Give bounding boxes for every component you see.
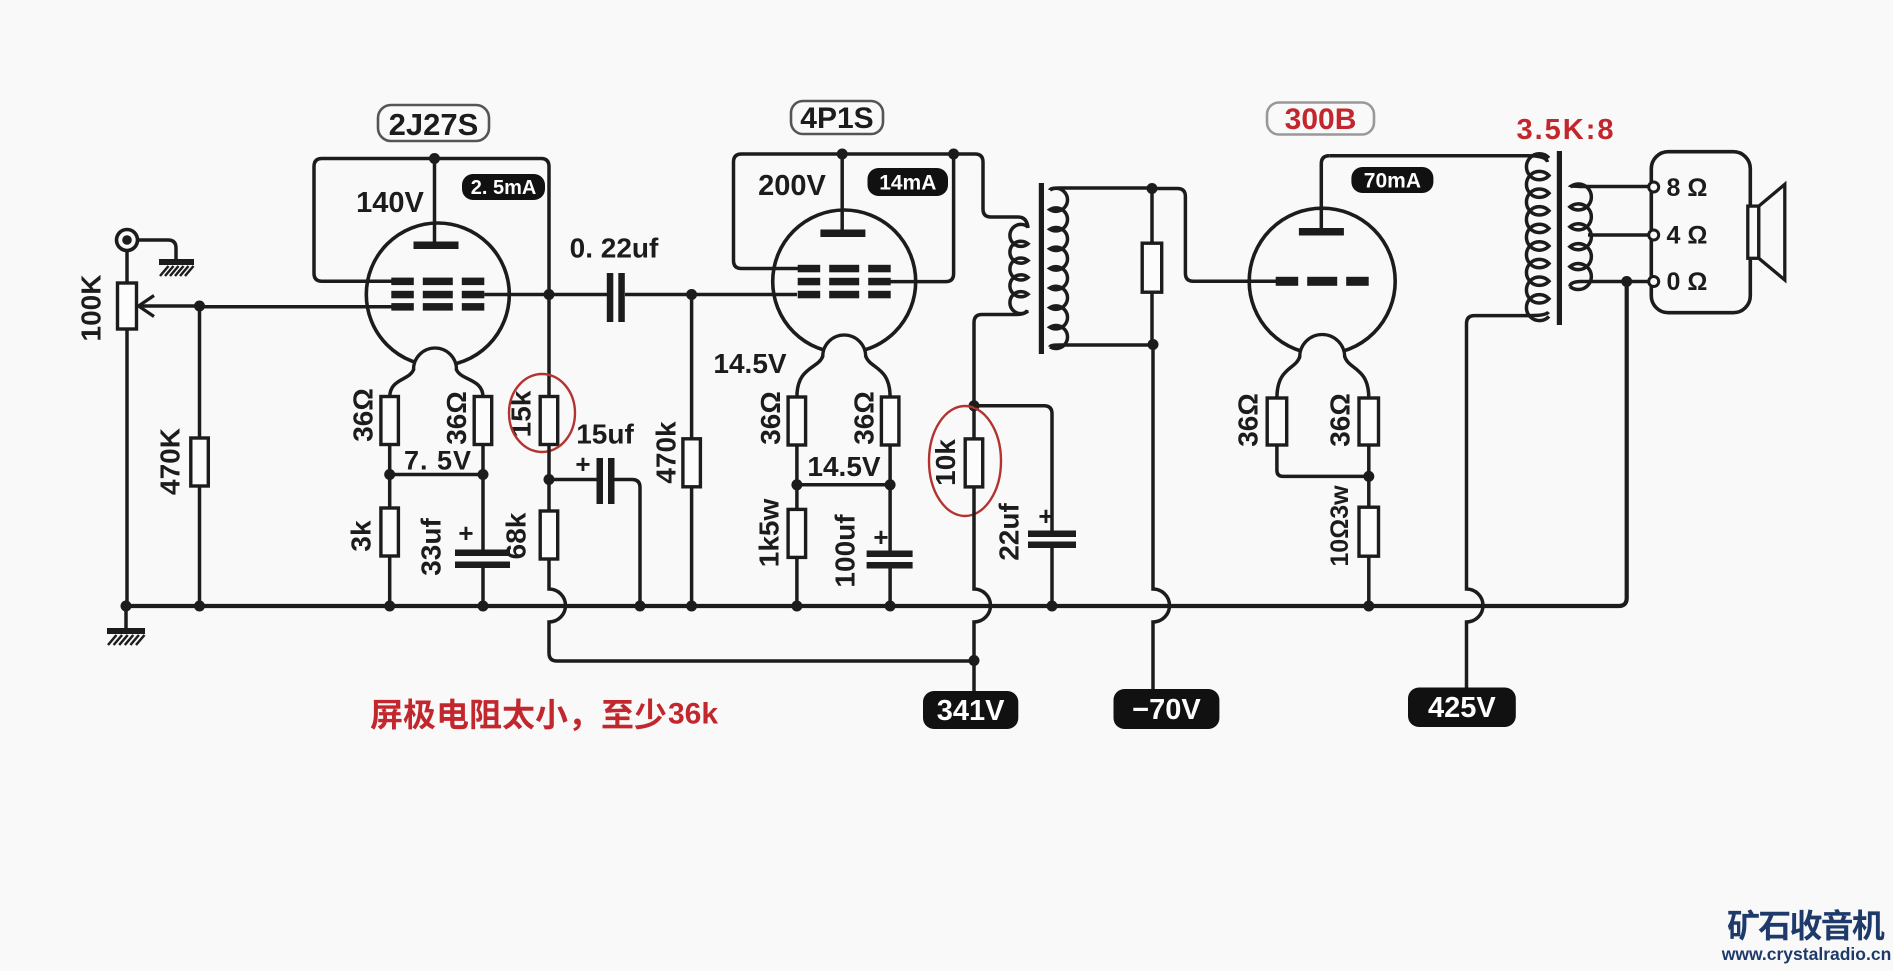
wire 15uf to ground rail xyxy=(615,480,641,607)
tube 2J27S plate xyxy=(414,159,459,250)
junction rail / 470k xyxy=(686,601,697,612)
wire rail end to main ground xyxy=(124,606,128,629)
net label 341V xyxy=(923,691,1018,729)
label + (33uf polarity) xyxy=(458,518,473,548)
svg-text:10k: 10k xyxy=(930,439,961,486)
output transformer core xyxy=(1557,151,1562,325)
resistor 36Ω (300B left filament) xyxy=(1267,398,1287,445)
svg-text:22uf: 22uf xyxy=(994,503,1025,561)
svg-text:100K: 100K xyxy=(76,275,107,342)
svg-text:100uf: 100uf xyxy=(830,514,861,588)
tube 4P1S envelope xyxy=(773,210,916,353)
svg-text:36k: 36k xyxy=(668,698,718,731)
wire secondary bottom to node xyxy=(1050,345,1153,347)
label 70mA xyxy=(1351,167,1433,193)
resistor 15k xyxy=(540,397,558,445)
wire 1k5w to ground rail xyxy=(795,557,799,606)
output transformer primary coil xyxy=(1526,154,1549,321)
label 4Ω xyxy=(1667,222,1708,250)
wire 10k hop over rail to 341V xyxy=(974,487,991,661)
label 8Ω xyxy=(1667,174,1708,202)
tube label 300B xyxy=(1267,103,1374,137)
tube 300B plate xyxy=(1299,156,1344,236)
grid resistor (across secondary) xyxy=(1142,189,1162,345)
wire 470k to ground rail xyxy=(690,487,694,606)
terminal 8Ω xyxy=(1649,182,1659,192)
wire wiper to 2J27S grid g1 xyxy=(200,305,393,309)
speaker xyxy=(1748,184,1785,280)
junction cathode / 100uf xyxy=(885,479,896,490)
svg-text:3.5K:8: 3.5K:8 xyxy=(1516,114,1615,146)
resistor 36Ω (4P1S left filament) xyxy=(788,397,806,445)
label 36Ω xyxy=(441,391,472,445)
wire 3k to ground rail xyxy=(388,556,392,606)
wire 68k hop over rail to B+ feed xyxy=(549,559,974,661)
wire 300B plate to OT primary top xyxy=(1329,156,1547,162)
svg-text:0. 22uf: 0. 22uf xyxy=(570,233,659,264)
svg-text:70mA: 70mA xyxy=(1364,170,1421,193)
wire secondary top node to 300B grid xyxy=(1152,189,1278,282)
svg-text:7. 5V: 7. 5V xyxy=(404,446,472,476)
svg-text:36Ω: 36Ω xyxy=(849,391,880,445)
svg-text:300B: 300B xyxy=(1285,103,1357,136)
label 0Ω xyxy=(1667,268,1708,296)
ground rail (0V bus) xyxy=(126,282,1627,607)
junction 15k / 68k / 15uf xyxy=(544,474,555,485)
label 14.5V (cathode) xyxy=(807,451,880,482)
svg-text:36Ω: 36Ω xyxy=(348,388,379,442)
wire plate-node loop left to g3 (4P1S) xyxy=(734,154,954,269)
capacitor 33uf xyxy=(455,550,510,569)
svg-text:+: + xyxy=(575,449,590,479)
label + (15uf polarity) xyxy=(575,449,590,479)
label 14.5V (grid) xyxy=(713,348,786,379)
potentiometer 100K body xyxy=(118,283,137,329)
wire cathode to 33uf xyxy=(481,475,485,551)
junction rail / 10ohm3w xyxy=(1363,601,1374,612)
node 4P1S plate junction xyxy=(837,149,848,160)
tube 300B envelope xyxy=(1249,208,1395,354)
label 2.5mA xyxy=(462,174,545,200)
wire junction to 470k xyxy=(690,295,694,440)
svg-text:36Ω: 36Ω xyxy=(1325,393,1356,447)
label 15k xyxy=(506,390,537,437)
label 36Ω xyxy=(849,391,880,445)
wire junction to 470K xyxy=(198,306,202,438)
svg-text:425V: 425V xyxy=(1428,692,1496,724)
watermark logo 矿石收音机 xyxy=(1728,909,1885,941)
wire secondary to 8Ω tap xyxy=(1570,184,1649,188)
junction secondary bottom / bias xyxy=(1148,339,1159,350)
label 14mA xyxy=(868,168,949,196)
annotation: plate resistor too small, at least 36k xyxy=(371,698,719,732)
label 10Ω3w xyxy=(1326,485,1354,567)
label 0.22uf xyxy=(570,233,659,264)
resistor 470K xyxy=(191,438,209,486)
junction rail / 33uf xyxy=(478,601,489,612)
label 36Ω xyxy=(755,391,786,445)
svg-text:68k: 68k xyxy=(501,512,532,559)
node 2J27S plate junction xyxy=(429,153,440,164)
svg-text:2J27S: 2J27S xyxy=(389,107,479,142)
wire filament resistors to cathode node (4P1S) xyxy=(797,445,890,485)
wire plate node to interstage primary top xyxy=(954,154,1028,228)
junction B+ feed / 341V xyxy=(969,655,980,666)
node plate / transformer primary xyxy=(948,149,959,160)
svg-text:200V: 200V xyxy=(758,170,826,202)
wire interstage primary bottom to 10k xyxy=(974,310,1027,406)
terminal 4Ω xyxy=(1649,230,1659,240)
junction cathode / 3k xyxy=(384,469,395,480)
label 15uf xyxy=(576,419,634,450)
label 36Ω xyxy=(1233,393,1264,447)
potentiometer 100K wiper arrow xyxy=(139,296,200,317)
svg-text:−70V: −70V xyxy=(1132,694,1201,726)
label 1k5w xyxy=(754,499,785,568)
tube 2J27S grids xyxy=(391,278,484,311)
junction rail / pot xyxy=(121,601,132,612)
wire secondary top to grid resistor node xyxy=(1050,188,1152,190)
label 470k xyxy=(651,421,682,484)
label + (100uf polarity) xyxy=(873,522,888,552)
resistor 68k xyxy=(540,480,558,560)
svg-text:33uf: 33uf xyxy=(416,518,447,576)
wire secondary to 4Ω tap xyxy=(1588,233,1649,237)
resistor 470k (4P1S grid leak) xyxy=(683,439,701,487)
input jack J1 xyxy=(117,230,138,251)
svg-text:14.5V: 14.5V xyxy=(807,451,880,482)
junction rail / 22uf xyxy=(1047,601,1058,612)
svg-text:14mA: 14mA xyxy=(879,172,936,195)
red circle annotation (10k) xyxy=(929,406,1001,516)
junction cathode / 10ohm3w xyxy=(1363,471,1374,482)
capacitor 22uf xyxy=(974,406,1076,606)
svg-text:www.crystalradio.cn: www.crystalradio.cn xyxy=(1721,944,1892,964)
junction cathode / 1k5w xyxy=(791,479,802,490)
tube 300B grid xyxy=(1276,277,1369,286)
wire secondary to 0Ω tap xyxy=(1570,282,1649,287)
resistor 36Ω (4P1S right filament) xyxy=(881,397,899,445)
svg-text:3k: 3k xyxy=(346,520,377,552)
svg-text:15uf: 15uf xyxy=(576,419,634,450)
label 100uf xyxy=(830,514,861,588)
svg-text:36Ω: 36Ω xyxy=(755,391,786,445)
junction wiper / grid-leak 470K xyxy=(194,301,205,312)
junction grid / 470k xyxy=(686,289,697,300)
net label 425V xyxy=(1408,688,1516,728)
wire plate node to 15k xyxy=(547,295,551,398)
svg-text:341V: 341V xyxy=(937,695,1005,727)
svg-text:470k: 470k xyxy=(651,421,682,484)
wire pot bottom to ground rail xyxy=(125,329,129,606)
label 22uf xyxy=(994,503,1025,561)
capacitor 0.22uf xyxy=(607,273,625,322)
junction cathode / 33uf xyxy=(478,469,489,480)
svg-text:36Ω: 36Ω xyxy=(441,391,472,445)
tube 4P1S grids xyxy=(798,265,891,299)
svg-text:14.5V: 14.5V xyxy=(713,348,786,379)
tube 300B base arc xyxy=(1300,335,1345,358)
resistor 36Ω (2J27S left filament) xyxy=(381,397,399,445)
watermark url xyxy=(1721,944,1892,964)
svg-text:4 Ω: 4 Ω xyxy=(1667,222,1708,250)
tube label 2J27S xyxy=(378,105,489,142)
red circle annotation (15k) xyxy=(509,374,575,452)
resistor 1k5w xyxy=(788,485,806,558)
label 68k xyxy=(501,512,532,559)
label 3.5K:8 xyxy=(1516,114,1615,146)
ground (main) xyxy=(107,631,145,645)
wire 2J27S anode line to 0.22uf xyxy=(484,293,607,297)
tube 4P1S plate xyxy=(820,154,865,237)
capacitor 15uf xyxy=(549,458,615,504)
capacitor 100uf xyxy=(867,485,913,569)
wire filament resistors to cathode node xyxy=(390,445,483,475)
junction secondary top / grid resistor xyxy=(1147,183,1158,194)
tube 4P1S base arc xyxy=(823,335,866,356)
tube 2J27S envelope xyxy=(366,223,509,366)
svg-text:2. 5mA: 2. 5mA xyxy=(471,177,537,199)
wire 15k to 68k junction xyxy=(547,445,551,480)
svg-text:1k5w: 1k5w xyxy=(754,499,785,568)
svg-text:4P1S: 4P1S xyxy=(800,102,873,135)
resistor 36Ω (2J27S right filament) xyxy=(474,397,492,445)
label 36Ω xyxy=(348,388,379,442)
svg-text:140V: 140V xyxy=(356,187,424,219)
resistor 3k xyxy=(381,508,399,556)
junction 0Ω / ground rail xyxy=(1621,276,1632,287)
tube 4P1S filament leads xyxy=(797,356,890,398)
label 470K xyxy=(155,428,186,495)
label 10k xyxy=(930,439,961,486)
label 33uf xyxy=(416,518,447,576)
label 36Ω xyxy=(1325,393,1356,447)
svg-text:8 Ω: 8 Ω xyxy=(1667,174,1708,202)
svg-text:+: + xyxy=(458,518,473,548)
tube 2J27S filament leads xyxy=(390,369,483,398)
wire bias node hop over rail to -70V xyxy=(1153,345,1170,690)
resistor 10k xyxy=(965,406,983,487)
tube 300B filament leads xyxy=(1277,356,1369,398)
tube label 4P1S xyxy=(791,101,883,135)
svg-text:+: + xyxy=(1038,501,1053,531)
wire 33uf to ground rail xyxy=(481,568,485,606)
wire cathode to 3k xyxy=(388,475,392,509)
ground (input jack) xyxy=(159,262,194,276)
label 140V xyxy=(356,187,424,219)
junction primary / 10k / 22uf xyxy=(969,400,980,411)
net label -70V xyxy=(1114,689,1220,729)
interstage transformer core xyxy=(1039,183,1044,354)
wire 470K to ground rail xyxy=(198,486,202,606)
speaker terminal panel xyxy=(1651,152,1750,313)
wire plate-node loop to g3/g2 (2J27S) xyxy=(314,159,549,295)
label 100K xyxy=(76,275,107,342)
svg-text:470K: 470K xyxy=(155,428,186,495)
terminal 0Ω xyxy=(1649,277,1659,287)
svg-text:10Ω3w: 10Ω3w xyxy=(1326,485,1354,567)
wire plate-node loop right to g2 (4P1S) xyxy=(890,154,954,282)
junction rail / 15uf xyxy=(635,601,646,612)
wire 0.22uf to 4P1S grid xyxy=(625,293,797,297)
interstage transformer primary coil xyxy=(1010,224,1028,313)
interstage transformer secondary coil xyxy=(1050,188,1068,348)
wire 100uf to ground rail xyxy=(888,569,892,607)
svg-text:+: + xyxy=(873,522,888,552)
junction rail / 100uf xyxy=(885,601,896,612)
svg-text:0 Ω: 0 Ω xyxy=(1667,268,1708,296)
label 3k xyxy=(346,520,377,552)
wire 10Ω3w to ground rail xyxy=(1367,556,1371,606)
label 7.5V xyxy=(404,446,472,476)
tube 2J27S base arc xyxy=(414,348,457,370)
wire jack to input ground xyxy=(138,240,177,260)
junction rail / 3k xyxy=(384,601,395,612)
resistor 36Ω (300B right filament) xyxy=(1359,398,1379,445)
label 200V xyxy=(758,170,826,202)
wire filament resistors to cathode node (300B) xyxy=(1277,445,1369,476)
junction anode / 15k xyxy=(544,289,555,300)
label + (22uf polarity) xyxy=(1038,501,1053,531)
resistor 10Ω3w xyxy=(1359,476,1379,556)
wire junction to 341V label xyxy=(972,661,976,692)
junction rail / 1k5w xyxy=(791,601,802,612)
wire OT primary bottom to 425V xyxy=(1467,312,1549,688)
junction rail / 470K xyxy=(194,601,205,612)
svg-text:36Ω: 36Ω xyxy=(1233,393,1264,447)
wire jack to potentiometer xyxy=(125,251,129,284)
output transformer secondary coil xyxy=(1570,184,1591,290)
